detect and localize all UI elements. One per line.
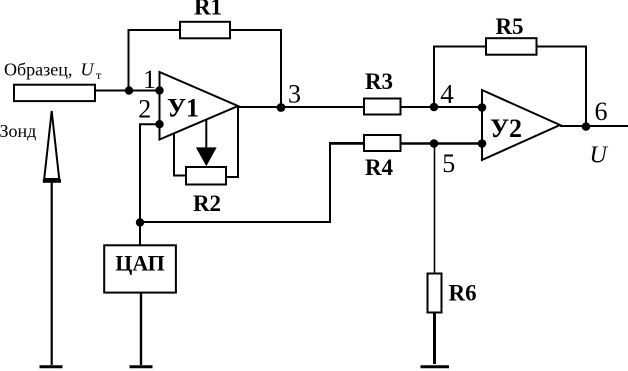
svg-text:6: 6: [595, 97, 608, 126]
arrow: DAC control into R2: [196, 120, 217, 166]
wire: junction to R4 branch: [140, 143, 364, 222]
wire: У1 output row to У2 input 1 (node 3 to node 4): [238, 106, 482, 108]
wire: node 4 up to R5: [434, 47, 486, 108]
svg-text:Образец,Uт: Образец,Uт: [4, 60, 102, 82]
svg-text:Зонд: Зонд: [0, 121, 36, 141]
node 3 dot: [277, 103, 286, 112]
wire: probe down to ground: [51, 182, 53, 365]
node 1 junction dot: [125, 86, 133, 94]
svg-text:R2: R2: [193, 191, 221, 216]
svg-text:U: U: [590, 143, 609, 169]
svg-text:3: 3: [288, 80, 301, 109]
svg-text:R5: R5: [495, 14, 523, 39]
ground: probe terminal: [40, 365, 63, 368]
resistor R3: [364, 99, 401, 115]
wire: op-amp input 2 left and down to DAC: [140, 124, 160, 245]
node 4 pin dot: [478, 103, 487, 112]
wire: У2 output to right edge: [560, 125, 628, 127]
junction dot at DAC node: [136, 218, 144, 226]
wire: R2 left leg to op-amp lower edge: [174, 133, 186, 176]
svg-text:У1: У1: [167, 94, 199, 123]
node 5 junction dot: [430, 139, 439, 148]
wire: node 1 up-left to R1: [129, 30, 182, 91]
node 5 pin dot: [478, 139, 487, 148]
resistor R5: [486, 38, 537, 55]
svg-text:R3: R3: [365, 69, 393, 94]
wire: DAC down to ground: [140, 293, 142, 365]
resistor R1: [180, 22, 230, 39]
ground: R6 terminal: [421, 365, 450, 368]
svg-text:5: 5: [442, 149, 455, 178]
node 4 junction dot: [430, 103, 439, 112]
resistor R6: [428, 274, 442, 313]
block ЦАП (DAC): [104, 245, 176, 292]
svg-text:2: 2: [138, 95, 151, 124]
resistor R2: [186, 167, 226, 185]
wire: R4 row to У2 input 2 (node 5): [330, 142, 482, 144]
svg-text:4: 4: [440, 79, 454, 109]
sample electrode (Образец): [14, 85, 95, 101]
resistor R4: [364, 135, 401, 151]
wire: sample output to op-amp input 1: [95, 90, 160, 92]
svg-text:R1: R1: [194, 0, 222, 20]
wire: R1 right down to node 3: [229, 30, 281, 107]
node 6 dot: [582, 122, 591, 131]
wire: R5 right down to node 6: [536, 47, 586, 127]
node 2 pin dot: [155, 120, 163, 128]
svg-text:R4: R4: [365, 155, 394, 180]
op-amp У2: [482, 90, 560, 160]
wire: node 5 down to R6: [434, 144, 436, 274]
probe (Зонд) tip: [43, 111, 61, 181]
svg-text:R6: R6: [449, 281, 477, 306]
wire: R6 down to ground: [433, 313, 436, 365]
svg-text:1: 1: [143, 65, 156, 94]
svg-text:ЦАП: ЦАП: [115, 251, 165, 276]
ground: DAC terminal: [130, 365, 153, 368]
node 1 pin dot: [155, 86, 163, 94]
svg-text:У2: У2: [490, 114, 522, 143]
op-amp У1: [160, 72, 239, 140]
wire: R2 right leg up to У1 output: [226, 106, 238, 177]
